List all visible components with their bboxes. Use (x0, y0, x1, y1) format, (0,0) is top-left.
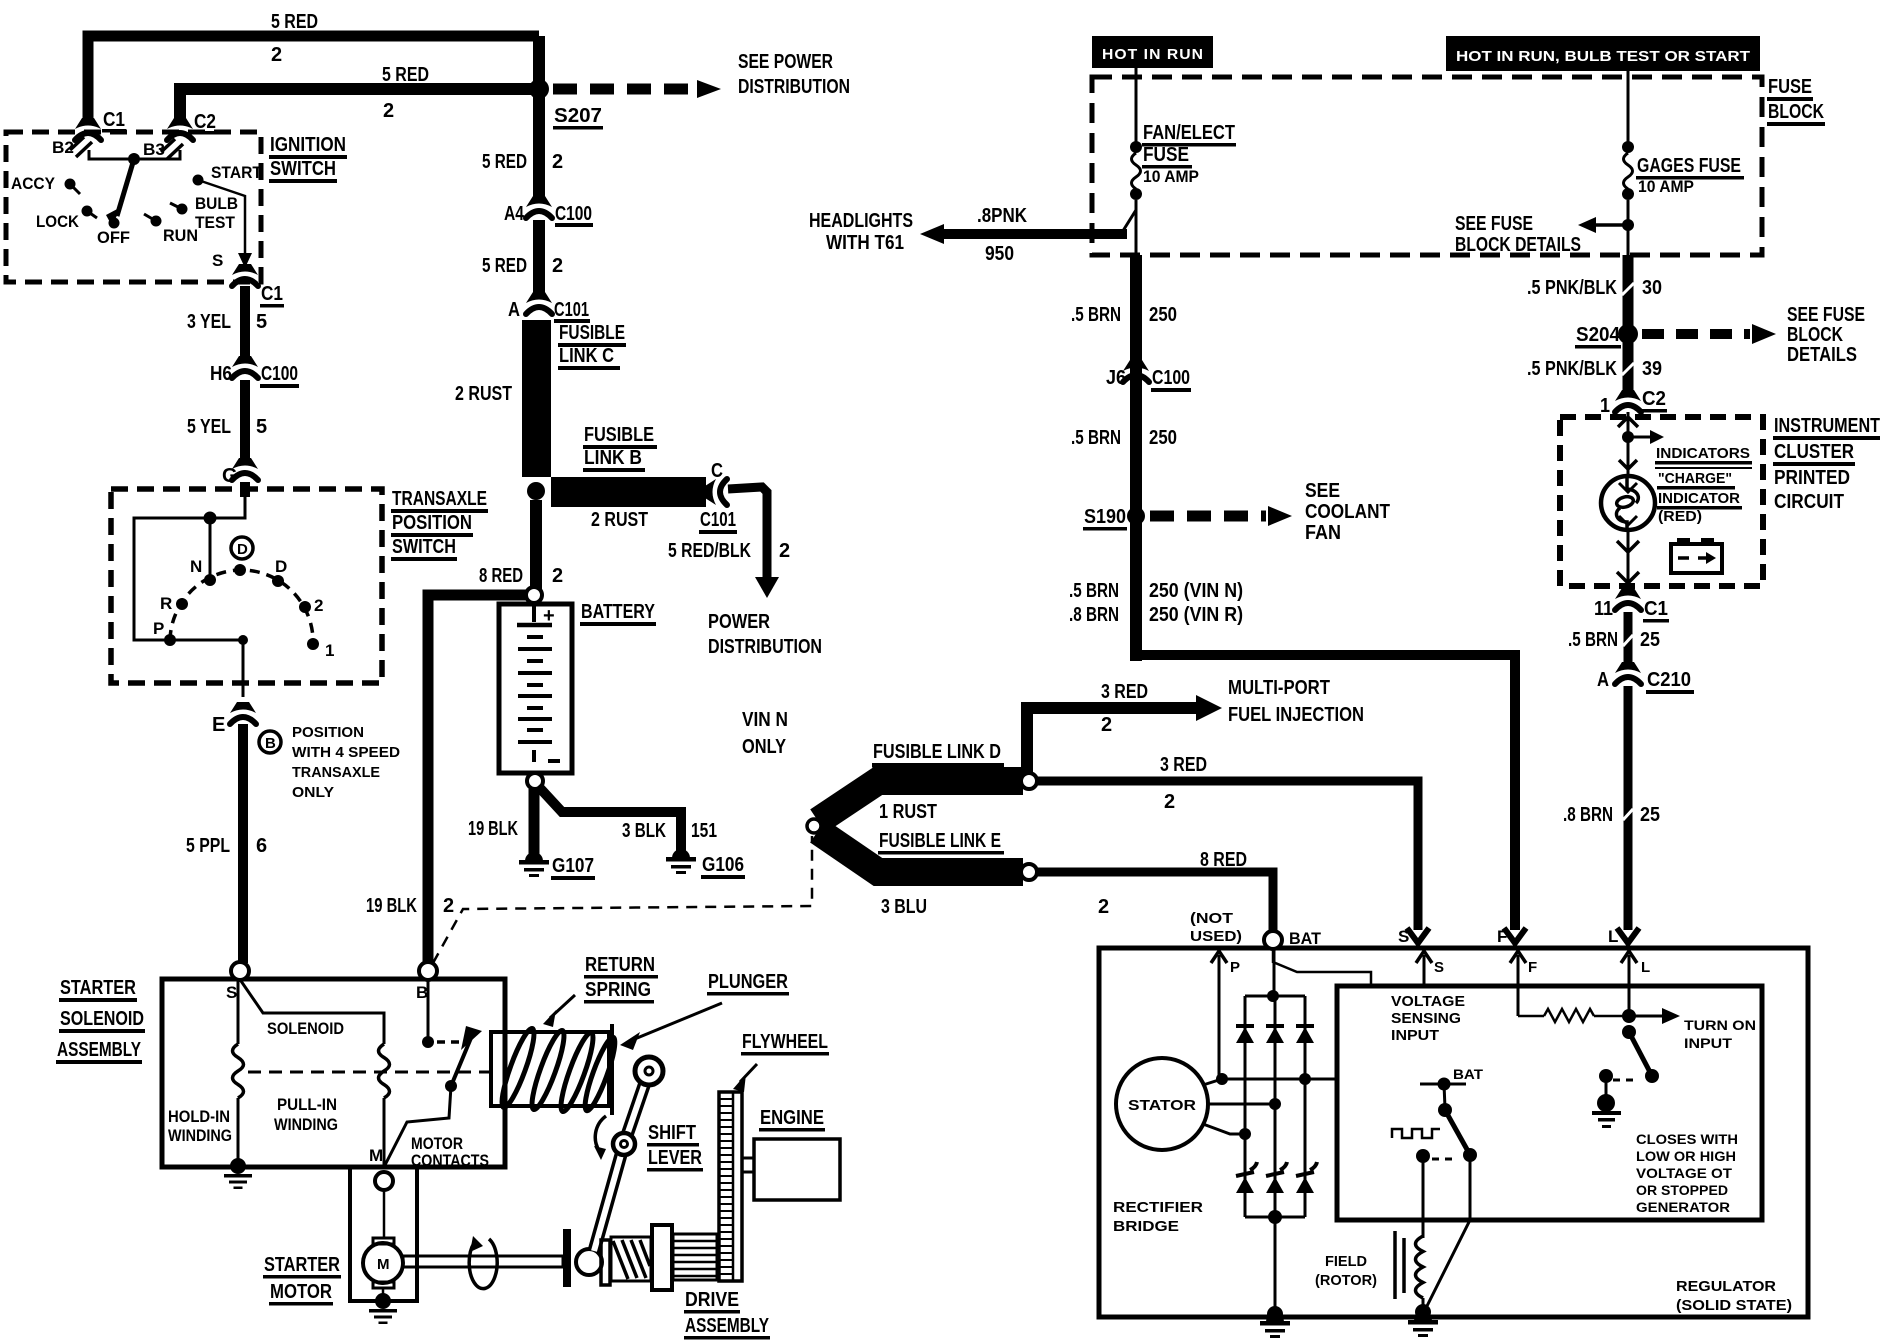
fuse GAGES 10A (1622, 141, 1634, 153)
svg-text:S: S (1398, 927, 1409, 946)
splice S190 (1127, 507, 1145, 525)
wire .8 BRN 25 to L (1624, 686, 1633, 930)
hot in run bulb test or start box (1446, 36, 1760, 71)
ground rectifier (1267, 1306, 1283, 1322)
wire BAT sense (1273, 949, 1371, 986)
svg-text:USED): USED) (1190, 928, 1242, 945)
drive spline hatch (601, 1240, 610, 1285)
svg-text:S204: S204 (1576, 324, 1621, 346)
svg-text:8 RED: 8 RED (479, 565, 523, 587)
stator (1116, 1058, 1208, 1150)
svg-text:5 RED: 5 RED (382, 64, 429, 86)
connector C100 pin A4 (526, 196, 552, 218)
svg-text:ASSEMBLY: ASSEMBLY (57, 1039, 141, 1061)
svg-text:OR STOPPED: OR STOPPED (1636, 1183, 1728, 1198)
svg-text:RETURN: RETURN (585, 954, 655, 976)
node junction below link C (527, 482, 545, 500)
wire B to motor contact (427, 981, 430, 1042)
svg-text:3 BLK: 3 BLK (622, 820, 666, 842)
contact P (164, 634, 176, 646)
svg-text:SHIFT: SHIFT (648, 1122, 696, 1144)
svg-text:F: F (1528, 959, 1537, 976)
svg-text:6: 6 (256, 835, 267, 857)
contact ACCY (65, 179, 76, 190)
svg-text:VOLTAGE OT: VOLTAGE OT (1636, 1166, 1733, 1181)
svg-text:.5 BRN: .5 BRN (1071, 304, 1121, 326)
svg-text:S: S (226, 983, 237, 1002)
svg-text:COOLANT: COOLANT (1305, 501, 1390, 523)
wire motor frame left (350, 1167, 417, 1301)
svg-text:SENSING: SENSING (1391, 1010, 1461, 1027)
wire START to S terminal (198, 180, 245, 262)
terminal BAT (1264, 931, 1282, 949)
splice S204 (1618, 324, 1638, 344)
svg-text:SEE FUSE: SEE FUSE (1455, 213, 1533, 235)
svg-text:WITH T61: WITH T61 (826, 232, 904, 254)
svg-text:BLOCK: BLOCK (1768, 101, 1824, 123)
svg-text:SEE POWER: SEE POWER (738, 51, 833, 73)
svg-text:2: 2 (552, 151, 563, 173)
svg-text:2: 2 (314, 596, 323, 615)
svg-text:8 RED: 8 RED (1200, 849, 1247, 871)
svg-text:C210: C210 (1647, 669, 1691, 691)
wire fuse to trunk (1135, 200, 1138, 258)
terminal S chevron (1407, 928, 1429, 943)
svg-text:C100: C100 (261, 363, 298, 385)
ground G106 (666, 849, 696, 874)
connector E (230, 702, 256, 724)
svg-text:.5 BRN: .5 BRN (1069, 580, 1119, 602)
svg-text:M: M (377, 1256, 390, 1273)
wire stator phase 3 (1203, 1124, 1245, 1134)
svg-text:C2: C2 (194, 111, 216, 133)
svg-text:INPUT: INPUT (1684, 1036, 1733, 1051)
svg-text:2: 2 (1101, 714, 1112, 736)
contact N (204, 574, 216, 586)
svg-text:RECTIFIER: RECTIFIER (1113, 1199, 1203, 1216)
flywheel ring gear (719, 1092, 742, 1281)
svg-text:D: D (275, 557, 287, 576)
svg-text:1: 1 (1600, 395, 1610, 417)
svg-text:B: B (265, 735, 276, 752)
svg-text:LINK C: LINK C (559, 345, 614, 367)
svg-text:PULL-IN: PULL-IN (277, 1095, 337, 1114)
svg-text:BAT: BAT (1289, 929, 1322, 948)
connector G transaxle (232, 458, 258, 480)
svg-text:(SOLID STATE): (SOLID STATE) (1676, 1297, 1792, 1314)
wire 3 BLK to G106 (538, 786, 681, 855)
svg-text:2: 2 (1164, 791, 1175, 813)
svg-text:WINDING: WINDING (168, 1126, 232, 1145)
svg-text:FUSIBLE LINK D: FUSIBLE LINK D (873, 741, 1001, 763)
wire dashed to fuse block details (1642, 329, 1750, 339)
svg-text:.5 BRN: .5 BRN (1071, 427, 1121, 449)
rectifier columns (1244, 996, 1247, 1217)
svg-text:PRINTED: PRINTED (1774, 467, 1850, 489)
svg-text:POSITION: POSITION (392, 512, 472, 534)
svg-text:BULB: BULB (195, 194, 238, 213)
svg-text:A4: A4 (504, 203, 525, 225)
svg-text:C101: C101 (554, 299, 589, 321)
svg-text:L: L (1608, 927, 1618, 946)
svg-text:151: 151 (691, 820, 717, 842)
wire headlights arrow (944, 229, 1127, 239)
svg-text:SWITCH: SWITCH (270, 158, 336, 180)
square wave symbol (1392, 1129, 1440, 1138)
svg-text:MULTI-PORT: MULTI-PORT (1228, 677, 1330, 699)
node link E output (1021, 864, 1037, 880)
svg-text:25: 25 (1640, 629, 1660, 651)
turn on input arrow (1629, 1015, 1664, 1018)
svg-text:A: A (508, 299, 520, 321)
svg-text:2: 2 (552, 255, 563, 277)
wire 3 YEL (240, 286, 250, 362)
svg-text:TEST: TEST (195, 213, 236, 232)
svg-text:LOW OR HIGH: LOW OR HIGH (1636, 1149, 1736, 1164)
svg-text:950: 950 (985, 243, 1014, 265)
svg-text:BLOCK DETAILS: BLOCK DETAILS (1455, 234, 1581, 256)
contact R (176, 598, 188, 610)
svg-text:SEE FUSE: SEE FUSE (1787, 304, 1865, 326)
svg-text:3 RED: 3 RED (1101, 681, 1148, 703)
fusible link C (522, 320, 551, 477)
wire S to hold-in winding (237, 981, 240, 1044)
svg-text:(NOT: (NOT (1190, 910, 1233, 927)
svg-text:VOLTAGE: VOLTAGE (1391, 993, 1465, 1010)
connector C2 at ignition switch (167, 118, 193, 140)
svg-text:5 PPL: 5 PPL (186, 835, 230, 857)
plunger flange (610, 1024, 614, 1115)
ground L switch (1605, 1080, 1608, 1098)
wire M to starter motor (383, 1190, 386, 1238)
svg-text:RUN: RUN (163, 226, 198, 245)
circled D (231, 537, 253, 559)
diode lower 2 (1266, 1162, 1287, 1176)
svg-text:BATTERY: BATTERY (581, 601, 656, 623)
svg-text:F: F (1497, 927, 1507, 946)
node battery negative stud (527, 773, 543, 789)
shift lever ball end (576, 1249, 602, 1275)
pinion collar (652, 1225, 672, 1290)
wire field to ground (1422, 1298, 1425, 1312)
svg-text:LINK B: LINK B (584, 447, 642, 469)
svg-text:FIELD: FIELD (1325, 1253, 1367, 1270)
svg-text:CLOSES WITH: CLOSES WITH (1636, 1132, 1738, 1147)
svg-text:WINDING: WINDING (274, 1115, 338, 1134)
fuse FAN/ELECT 10A (1130, 141, 1142, 153)
svg-text:TRANSAXLE: TRANSAXLE (392, 488, 487, 510)
transaxle position switch (111, 489, 382, 683)
wire into fan/elect fuse (1135, 68, 1138, 146)
wire dashed to power distribution (553, 84, 697, 95)
svg-text:2 RUST: 2 RUST (591, 509, 648, 531)
connector C101 pin A (526, 292, 552, 314)
svg-text:C1: C1 (1644, 598, 1668, 620)
svg-text:ACCY: ACCY (11, 174, 56, 193)
svg-text:FUSIBLE LINK E: FUSIBLE LINK E (879, 830, 1001, 852)
wire 8 RED battery feed (530, 500, 542, 592)
svg-text:INDICATOR: INDICATOR (1658, 490, 1740, 507)
S arrow inside (1416, 951, 1432, 963)
svg-text:INPUT: INPUT (1391, 1027, 1439, 1044)
svg-text:.5 PNK/BLK: .5 PNK/BLK (1527, 358, 1617, 380)
node turn-on junction (1622, 1009, 1636, 1023)
svg-text:PLUNGER: PLUNGER (708, 971, 788, 993)
ignition switch (6, 132, 261, 282)
connector C100 pin J6 (1123, 360, 1149, 382)
engine (754, 1139, 840, 1200)
switch lower contact (1416, 1149, 1430, 1163)
svg-text:BRIDGE: BRIDGE (1113, 1218, 1179, 1235)
svg-text:250 (VIN R): 250 (VIN R) (1149, 604, 1243, 626)
svg-text:5 RED: 5 RED (482, 255, 527, 277)
plunger body (491, 1032, 609, 1106)
svg-text:(ROTOR): (ROTOR) (1315, 1272, 1377, 1289)
starter motor (373, 1238, 394, 1244)
svg-text:ONLY: ONLY (292, 784, 334, 801)
svg-text:G107: G107 (552, 855, 594, 877)
wire junction to N (209, 518, 212, 580)
svg-text:C2: C2 (1642, 388, 1666, 410)
svg-text:B: B (416, 983, 428, 1002)
battery (499, 604, 572, 773)
wire trunk 5 RED (533, 36, 545, 203)
lever rotation arc (595, 1116, 606, 1152)
wire P to output (170, 640, 243, 697)
svg-text:CIRCUIT: CIRCUIT (1774, 491, 1844, 513)
svg-text:11: 11 (1594, 598, 1613, 620)
svg-text:L: L (1641, 959, 1650, 976)
svg-text:C1: C1 (103, 109, 125, 131)
shift lever arm (624, 1071, 649, 1144)
diode upper 3 (1296, 1024, 1314, 1028)
svg-text:OFF: OFF (97, 228, 130, 247)
svg-text:BAT: BAT (1453, 1067, 1484, 1082)
svg-text:ENGINE: ENGINE (760, 1107, 824, 1129)
svg-text:DISTRIBUTION: DISTRIBUTION (738, 76, 850, 98)
ground G107 (519, 852, 549, 877)
svg-text:FUSIBLE: FUSIBLE (559, 322, 625, 344)
wire S to pull-in winding (241, 981, 384, 1044)
wire brown to F terminal (1136, 655, 1515, 930)
svg-text:5 YEL: 5 YEL (187, 416, 231, 438)
svg-text:10 AMP: 10 AMP (1143, 167, 1199, 186)
wire 5 YEL (240, 380, 250, 464)
wire fuse to see fuse block details (1627, 200, 1630, 258)
charge indicator lamp (1601, 476, 1655, 530)
svg-text:SEE: SEE (1305, 480, 1340, 502)
svg-text:2: 2 (552, 565, 563, 587)
svg-text:TRANSAXLE: TRANSAXLE (292, 764, 380, 781)
svg-text:C: C (711, 460, 723, 482)
svg-text:2: 2 (779, 540, 790, 562)
svg-text:FAN: FAN (1305, 522, 1341, 544)
svg-text:INSTRUMENT: INSTRUMENT (1774, 415, 1880, 437)
svg-text:E: E (212, 714, 225, 736)
hold-in winding coil (233, 1044, 244, 1098)
contact 1 (307, 638, 319, 650)
wire into transaxle switch (240, 482, 250, 497)
L switch (1622, 1025, 1636, 1039)
svg-text:H6: H6 (210, 363, 232, 385)
wire pull-in to M (383, 1098, 386, 1167)
svg-text:.5 BRN: .5 BRN (1568, 629, 1618, 651)
svg-text:250: 250 (1149, 304, 1177, 326)
instrument cluster printed circuit (1560, 417, 1763, 586)
svg-text:ASSEMBLY: ASSEMBLY (685, 1315, 769, 1337)
svg-text:S190: S190 (1084, 506, 1126, 528)
svg-text:STARTER: STARTER (264, 1254, 340, 1276)
wire 5 RED top feed (88, 36, 539, 124)
wire internal feed (134, 497, 245, 640)
connector C210 pin A (1615, 662, 1641, 684)
rotor arc (170, 570, 313, 640)
svg-text:2 RUST: 2 RUST (455, 383, 512, 405)
svg-text:3 RED: 3 RED (1160, 754, 1207, 776)
svg-text:HOT IN RUN: HOT IN RUN (1102, 46, 1204, 63)
svg-text:"CHARGE": "CHARGE" (1658, 470, 1732, 487)
fusible link D (818, 781, 1023, 821)
svg-text:2: 2 (383, 100, 394, 122)
field rotor coil (1416, 1236, 1424, 1298)
svg-text:.5 PNK/BLK: .5 PNK/BLK (1527, 277, 1617, 299)
svg-text:S: S (1434, 959, 1444, 976)
svg-text:START: START (211, 163, 263, 182)
node S terminal stud (231, 962, 249, 980)
svg-text:C100: C100 (1152, 367, 1190, 389)
ground hold-in (224, 1158, 252, 1189)
svg-text:(RED): (RED) (1658, 508, 1702, 525)
svg-text:N: N (190, 557, 202, 576)
S switch blade (1444, 1084, 1445, 1108)
svg-text:S207: S207 (554, 105, 602, 127)
contact LOCK (82, 206, 93, 217)
svg-text:10 AMP: 10 AMP (1638, 177, 1694, 196)
motor shaft (403, 1256, 563, 1267)
svg-text:C1: C1 (261, 283, 283, 305)
svg-text:P: P (1230, 959, 1240, 976)
contact D (272, 575, 284, 587)
wire 8 RED to BAT (1037, 872, 1273, 930)
svg-text:SOLENOID: SOLENOID (60, 1008, 144, 1030)
contact top (D) (234, 564, 246, 576)
svg-text:BLOCK: BLOCK (1787, 324, 1843, 346)
battery icon (1671, 544, 1722, 573)
svg-text:M: M (369, 1146, 383, 1165)
fusible link E (818, 831, 1023, 872)
ground starter motor (369, 1293, 397, 1324)
wire hold-in to ground (237, 1098, 240, 1162)
svg-text:STATOR: STATOR (1128, 1097, 1196, 1114)
connector C2 pin 1 (1615, 390, 1641, 412)
svg-text:19 BLK: 19 BLK (366, 895, 417, 917)
wire BAT to rectifier rail (1273, 949, 1276, 996)
svg-text:2: 2 (443, 895, 454, 917)
node fusible link vertex (807, 819, 821, 833)
node rotor pivot (128, 153, 140, 165)
dashed plunger actuation line (248, 1071, 489, 1074)
wire 19 BLK to G107 (529, 789, 540, 859)
wire contact to field (1422, 1160, 1425, 1238)
wire stator phase 1 (1203, 1079, 1337, 1085)
rectifier bottom rail (1245, 1216, 1305, 1219)
L arrow inside (1621, 951, 1637, 963)
svg-text:39: 39 (1642, 358, 1662, 380)
pinion gear (673, 1234, 717, 1280)
connector C100 pin H6 (232, 356, 258, 378)
wire stator phase 2 (1208, 1103, 1275, 1106)
svg-text:HOT IN RUN, BULB TEST OR START: HOT IN RUN, BULB TEST OR START (1456, 48, 1750, 65)
resistor (1518, 1015, 1544, 1018)
thrust collar (563, 1229, 571, 1287)
svg-text:5 RED/BLK: 5 RED/BLK (668, 540, 751, 562)
svg-text:GENERATOR: GENERATOR (1636, 1200, 1730, 1215)
node link D output (1021, 773, 1037, 789)
svg-text:19 BLK: 19 BLK (468, 818, 518, 840)
wire 5 RED below C100 (533, 220, 545, 299)
svg-text:ONLY: ONLY (742, 736, 787, 758)
rectifier top rail (1245, 995, 1305, 998)
svg-text:D: D (237, 541, 248, 558)
svg-text:GAGES FUSE: GAGES FUSE (1637, 155, 1741, 177)
wire 5 RED second feed (180, 89, 545, 124)
voltage sensing input box (1337, 986, 1762, 1220)
svg-text:REGULATOR: REGULATOR (1676, 1278, 1776, 1295)
svg-text:3 YEL: 3 YEL (187, 311, 231, 333)
svg-text:5 RED: 5 RED (271, 11, 318, 33)
splice S207 (529, 79, 549, 99)
svg-text:FUSE: FUSE (1768, 76, 1812, 98)
wire 3 RED to S terminal (1037, 781, 1418, 930)
svg-text:TURN ON: TURN ON (1684, 1018, 1756, 1033)
contact 2 (299, 601, 311, 613)
svg-text:FUSIBLE: FUSIBLE (584, 424, 654, 446)
svg-text:CLUSTER: CLUSTER (1774, 441, 1854, 463)
svg-text:FUSE: FUSE (1143, 144, 1189, 166)
svg-text:POWER: POWER (708, 611, 770, 633)
svg-text:C101: C101 (700, 509, 736, 531)
svg-text:POSITION: POSITION (292, 724, 364, 741)
wire .5 BRN trunk (1130, 255, 1142, 661)
generator / regulator outer box (1099, 948, 1808, 1317)
connector C1 pin 11 (1615, 588, 1641, 610)
pull-in winding coil (379, 1044, 390, 1098)
svg-text:SPRING: SPRING (585, 979, 651, 1001)
fusible link B (551, 477, 706, 507)
svg-text:SWITCH: SWITCH (392, 536, 456, 558)
diode upper 1 (1236, 1026, 1254, 1043)
svg-text:1 RUST: 1 RUST (879, 801, 937, 823)
wire .5 BRN 25 (1624, 612, 1633, 668)
svg-text:LOCK: LOCK (36, 212, 80, 231)
circled B note (259, 731, 281, 753)
svg-text:250: 250 (1149, 427, 1177, 449)
terminal L chevron (1617, 928, 1639, 943)
wire dashed to coolant fan (1150, 511, 1266, 522)
svg-text:INDICATORS: INDICATORS (1656, 445, 1750, 462)
svg-text:STARTER: STARTER (60, 977, 136, 999)
svg-text:3 BLU: 3 BLU (881, 896, 927, 918)
svg-text:C100: C100 (555, 203, 592, 225)
ground field (1415, 1304, 1431, 1320)
wire .5 PNK/BLK 39 (1623, 341, 1634, 396)
svg-text:.8PNK: .8PNK (977, 205, 1027, 227)
svg-text:5: 5 (256, 311, 267, 333)
node feed junction (204, 512, 217, 525)
svg-text:FLYWHEEL: FLYWHEEL (742, 1031, 828, 1053)
wire gages fuse feed (1627, 71, 1630, 146)
connector C1 ignition output (232, 264, 258, 286)
